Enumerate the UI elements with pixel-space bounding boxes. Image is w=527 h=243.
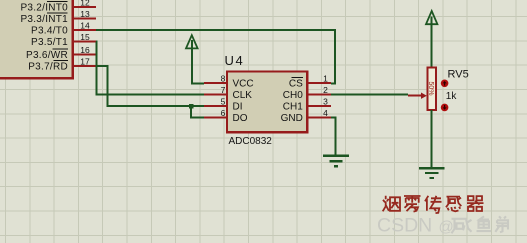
svg-text:CH1: CH1 (283, 101, 303, 112)
svg-text:DO: DO (233, 113, 248, 124)
svg-text:CSDN: CSDN (377, 215, 432, 237)
wire P3.5/T1 -> CLK (96, 42, 204, 95)
potentiometer RV5 body (427, 68, 436, 110)
svg-text:17: 17 (80, 56, 90, 66)
RV5 wiper arrow (408, 93, 427, 99)
pin stub P3.4 (pin 14) (74, 29, 96, 31)
reference label U4 (225, 53, 245, 68)
ground symbol under RV5 (419, 168, 445, 178)
pin name P3.7/RD (28, 61, 68, 73)
power symbol (up arrow) above RV5 (426, 11, 437, 24)
svg-text:CH0: CH0 (283, 90, 303, 101)
U4 pin number 2 (323, 85, 328, 95)
wire GND pin -> ground (331, 118, 336, 156)
U4 pin name VCC (233, 78, 254, 89)
wire P3.7/RD -> DI (96, 66, 204, 106)
svg-text:P3.4/T0: P3.4/T0 (31, 25, 68, 36)
U4 pin number 3 (323, 96, 328, 106)
U4 right pin stub CH1 (pin 3) (307, 105, 331, 107)
svg-text:3: 3 (323, 96, 328, 106)
svg-text:4: 4 (323, 108, 328, 118)
svg-text:6: 6 (221, 108, 226, 118)
power symbol VCC (up arrow) feeding U4 pin 8 (186, 35, 198, 48)
U4 right pin stub CS (pin 1) (307, 82, 331, 84)
svg-text:50%: 50% (427, 81, 434, 95)
pin number 14 (80, 20, 90, 30)
svg-text:P3.2/INT0: P3.2/INT0 (20, 2, 68, 13)
value label ADC0832 (229, 136, 273, 147)
pin number 13 (80, 9, 90, 19)
svg-text:12: 12 (80, 0, 90, 7)
wire RV5 bottom -> ground (431, 110, 433, 168)
svg-text:8: 8 (221, 73, 226, 83)
microcontroller U? (8051 port-3 side, clipped at left/top) (0, 0, 73, 78)
svg-text:7: 7 (221, 85, 226, 95)
svg-text:ADC0832: ADC0832 (229, 136, 273, 147)
U4 pin name CH0 (283, 90, 303, 101)
pin number 17 (80, 56, 90, 66)
U4 pin name CLK (233, 90, 253, 101)
pin name P3.4/T0 (31, 25, 68, 36)
pin stub P3.5 (pin 15) (74, 41, 96, 43)
watermark text CSDN (377, 215, 432, 237)
svg-text:P3.5/T1: P3.5/T1 (31, 37, 68, 48)
U4 pin name CH1 (283, 101, 303, 112)
caption text 烟雾传感器 (smoke sensor) (383, 196, 484, 213)
watermark @ (439, 219, 454, 236)
svg-text:RV5: RV5 (448, 69, 469, 81)
wire CH0 -> potentiometer wiper (331, 94, 408, 96)
svg-text:P3.7/RD: P3.7/RD (28, 61, 68, 72)
U4 pin number 7 (221, 85, 226, 95)
U4 pin number 8 (221, 73, 226, 83)
value label 1k (446, 91, 458, 102)
U4 right pin stub CH0 (pin 2) (307, 94, 331, 96)
U4 pin number 4 (323, 108, 328, 118)
wire power -> RV5 top (431, 17, 433, 69)
junction node DI/DO tie (189, 104, 193, 108)
svg-text:DI: DI (233, 101, 243, 112)
U4 pin name DO (233, 113, 248, 124)
U4 left pin stub DO (pin 6) (204, 117, 227, 119)
svg-text:1k: 1k (446, 91, 458, 102)
wire P3.4/T0 -> CS (top horizontal then down at right) (96, 30, 335, 84)
pin stub P3.7 (pin 17) (74, 65, 96, 67)
svg-text:1: 1 (323, 73, 328, 83)
svg-text:GND: GND (281, 113, 303, 124)
wire power -> VCC pin (192, 40, 204, 84)
pin name P3.6/WR (26, 49, 68, 61)
U4 left pin stub VCC (pin 8) (204, 82, 227, 84)
U4 pin name CS (289, 78, 303, 90)
RV5 interactive button down (441, 104, 449, 112)
U4 pin number 6 (221, 108, 226, 118)
pin number 15 (80, 32, 90, 42)
svg-text:P3.6/WR: P3.6/WR (26, 50, 68, 61)
svg-text:CS: CS (289, 78, 303, 89)
reference label RV5 (448, 69, 469, 81)
op-amp/IC U4 body (ADC0832) (227, 72, 307, 133)
svg-text:VCC: VCC (233, 78, 254, 89)
pin number 16 (80, 45, 90, 55)
svg-text:2: 2 (323, 85, 328, 95)
pin name P3.2/INT0 (20, 2, 68, 14)
watermark text 咸鱼弟 (452, 216, 509, 233)
ground symbol under U4 (323, 156, 349, 167)
U4 pin number 5 (221, 96, 226, 106)
svg-text:P3.3/INT1: P3.3/INT1 (20, 14, 68, 25)
svg-text:16: 16 (80, 45, 90, 55)
wire junction -> DO (191, 106, 204, 118)
svg-text:CLK: CLK (233, 90, 253, 101)
pin name P3.5/T1 (31, 37, 68, 48)
U4 left pin stub CLK (pin 7) (204, 94, 227, 96)
U4 left pin stub DI (pin 5) (204, 105, 227, 107)
svg-text:13: 13 (80, 9, 90, 19)
U4 right pin stub GND (pin 4) (307, 117, 331, 119)
pin number 12 (80, 0, 90, 7)
svg-text:14: 14 (80, 20, 90, 30)
RV5 interactive button up (441, 80, 449, 88)
U4 pin number 1 (323, 73, 328, 83)
svg-text:U4: U4 (225, 53, 245, 68)
pin stub P3.3 (pin 13) (74, 18, 96, 20)
pin name P3.3/INT1 (20, 13, 68, 25)
pin stub P3.2 (pin 12) (74, 6, 96, 8)
U4 pin name DI (233, 101, 243, 112)
pin stub P3.6 (pin 16) (74, 54, 96, 56)
U4 pin name GND (281, 113, 303, 124)
svg-text:5: 5 (221, 96, 226, 106)
svg-text:15: 15 (80, 32, 90, 42)
